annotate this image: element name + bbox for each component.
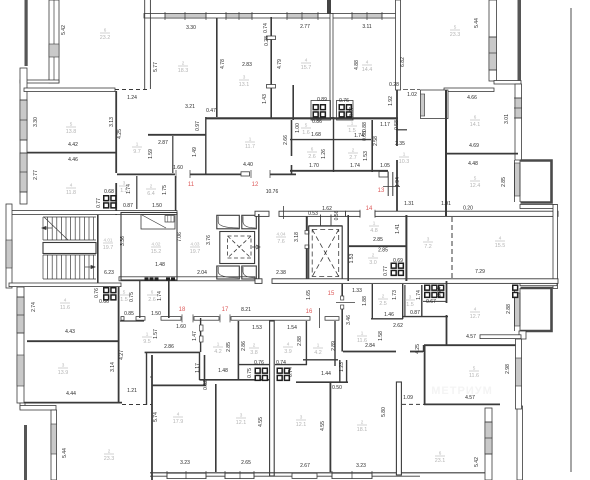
svg-text:1.05: 1.05 (380, 163, 390, 169)
svg-text:12.4: 12.4 (470, 183, 481, 189)
svg-text:0.68: 0.68 (362, 131, 368, 141)
balcony NE (thick) (521, 161, 552, 203)
svg-text:1: 1 (373, 221, 376, 226)
svg-text:2.86: 2.86 (241, 341, 247, 351)
svg-text:4: 4 (177, 412, 180, 417)
svg-text:1.74: 1.74 (416, 290, 422, 300)
loggia room4/14.4 (421, 90, 449, 119)
svg-text:14.1: 14.1 (470, 122, 481, 128)
svg-text:4.48: 4.48 (468, 161, 478, 167)
svg-text:3: 3 (240, 413, 243, 418)
west outer wall upper, windows (20, 68, 27, 204)
svg-text:3.14: 3.14 (110, 362, 116, 372)
svg-text:16: 16 (306, 309, 313, 315)
west outer wall stair block (6, 204, 12, 288)
svg-text:1.00: 1.00 (295, 123, 301, 133)
extra box pair right (438, 285, 444, 299)
meter boxes apt16 (277, 368, 291, 382)
svg-text:3.46: 3.46 (346, 315, 352, 325)
svg-text:2: 2 (182, 61, 185, 66)
room5/11.6 walls (424, 345, 426, 405)
svg-text:23.2: 23.2 (100, 35, 111, 41)
rooms 2/3.8|4/3.9 bottoms (239, 364, 271, 366)
lobby 4.04 east wall with door gap (306, 216, 308, 232)
bath fixtures C1 (313, 104, 327, 118)
svg-text:1.23: 1.23 (339, 362, 345, 372)
svg-text:3.0: 3.0 (369, 260, 377, 266)
niches above elevator 2 (309, 225, 342, 227)
svg-text:2.85: 2.85 (373, 237, 383, 243)
wall rooms6/5 right (446, 153, 518, 155)
svg-text:1.57: 1.57 (153, 329, 159, 339)
svg-text:0.56: 0.56 (334, 210, 340, 220)
svg-text:13: 13 (378, 188, 385, 194)
svg-text:4: 4 (305, 58, 308, 63)
bath block walls (290, 139, 371, 141)
stair top wall (7, 211, 177, 215)
svg-text:1.73: 1.73 (392, 290, 398, 300)
svg-text:4.43: 4.43 (65, 329, 75, 335)
svg-text:4: 4 (366, 60, 369, 65)
svg-text:6: 6 (151, 290, 154, 295)
balcony rail bottom-left (dark) (24, 425, 27, 480)
svg-text:12.1: 12.1 (236, 420, 247, 426)
svg-text:1.09: 1.09 (403, 395, 413, 401)
svg-text:4.55: 4.55 (320, 421, 326, 431)
svg-text:5.80: 5.80 (381, 407, 387, 417)
fire elevator 2 (solid box, dashed X) (309, 226, 343, 280)
east wall of left apt (115, 91, 117, 173)
svg-text:5.77: 5.77 (153, 62, 159, 72)
wall 1/4.2|1/11.6 apt16 (334, 321, 336, 366)
svg-text:0.58: 0.58 (394, 120, 400, 130)
wall x389 corridor east, door gap apt13 (387, 172, 389, 196)
svg-text:15.7: 15.7 (301, 65, 312, 71)
svg-text:1.92: 1.92 (388, 96, 394, 106)
meter boxes right corridor (391, 263, 405, 277)
dashed boundary room6/room1 (115, 89, 150, 91)
svg-text:0.76: 0.76 (94, 288, 100, 298)
svg-text:4.04: 4.04 (277, 232, 286, 237)
svg-text:0.47: 0.47 (206, 108, 216, 114)
svg-text:11.7: 11.7 (245, 144, 255, 150)
svg-text:1: 1 (361, 331, 364, 336)
svg-text:3: 3 (427, 237, 430, 242)
svg-text:0.53: 0.53 (308, 211, 318, 217)
svg-text:7.29: 7.29 (475, 269, 485, 275)
svg-text:2: 2 (372, 253, 375, 258)
wall x398 rooms2/6 (396, 382, 401, 475)
svg-text:0.75: 0.75 (247, 368, 253, 378)
svg-text:0.66: 0.66 (99, 299, 109, 305)
svg-text:3: 3 (243, 75, 246, 80)
svg-text:7.2: 7.2 (424, 244, 432, 250)
corridor bottom wall y212 right part (346, 211, 361, 216)
svg-text:0.28: 0.28 (389, 82, 399, 88)
svg-text:1.48: 1.48 (155, 262, 165, 268)
svg-text:1: 1 (317, 343, 320, 348)
svg-text:4.03: 4.03 (191, 242, 200, 247)
hall 18 west strip (120, 320, 144, 322)
lift lobby box (121, 213, 177, 281)
apt17 hall walls (200, 379, 271, 381)
svg-text:14: 14 (366, 206, 373, 212)
wall below balcony SE (519, 331, 526, 339)
svg-text:1.59: 1.59 (148, 149, 154, 159)
svg-text:4.01: 4.01 (104, 238, 113, 243)
svg-text:11.8: 11.8 (66, 190, 76, 196)
band wall y117 (206, 117, 398, 119)
svg-text:0.89: 0.89 (317, 97, 327, 103)
fire elevator 1 (solid box, inner dashed X) (220, 232, 255, 264)
wall x396 top (room5 west) (396, 0, 401, 90)
niche door ticks (200, 325, 204, 331)
svg-text:6.4: 6.4 (147, 191, 155, 197)
balcony SE (thick) (521, 288, 552, 331)
svg-text:1.47: 1.47 (192, 331, 198, 341)
dashed future partition (451, 217, 453, 281)
elevator shaft 2 (242, 215, 256, 229)
svg-text:2.35: 2.35 (395, 141, 405, 147)
meter boxes upper-left (103, 195, 117, 209)
svg-text:23.3: 23.3 (450, 32, 461, 38)
svg-text:0.88: 0.88 (362, 122, 368, 132)
bay walls (520, 205, 557, 209)
hall 1/4.8 + storage 2/3.0 walls (347, 215, 349, 281)
svg-text:2.77: 2.77 (300, 24, 310, 30)
svg-text:6.82: 6.82 (400, 57, 406, 67)
svg-text:13.8: 13.8 (66, 129, 77, 135)
svg-text:3.23: 3.23 (356, 463, 366, 469)
room5/23.3 window west wall (489, 0, 497, 81)
svg-text:9.7: 9.7 (133, 149, 141, 155)
svg-text:1.43: 1.43 (262, 94, 268, 104)
svg-text:4: 4 (474, 307, 477, 312)
svg-text:2.88: 2.88 (297, 336, 303, 346)
svg-text:2.38: 2.38 (276, 270, 286, 276)
svg-text:11: 11 (188, 182, 195, 188)
svg-text:1.26: 1.26 (321, 149, 327, 159)
svg-text:1.58: 1.58 (378, 331, 384, 341)
svg-text:2.85: 2.85 (226, 342, 232, 352)
svg-text:19.7: 19.7 (103, 245, 114, 251)
svg-text:1.62: 1.62 (322, 206, 332, 212)
svg-text:1.6: 1.6 (302, 130, 310, 136)
wall x397 room10.3 west upper (396, 90, 398, 146)
room6 east wall (double) (144, 0, 146, 89)
svg-text:0.28: 0.28 (264, 36, 270, 46)
svg-text:4.42: 4.42 (68, 142, 78, 148)
svg-text:0.74: 0.74 (288, 367, 294, 377)
svg-text:1.24: 1.24 (127, 95, 137, 101)
corridor bottom wall y318 (121, 317, 124, 321)
property boundary line (570, 8, 572, 472)
wall rooms2/3 (216, 18, 218, 117)
svg-text:0.87: 0.87 (410, 310, 420, 316)
svg-text:4.57: 4.57 (465, 395, 475, 401)
svg-text:6: 6 (104, 28, 107, 33)
svg-text:1.17: 1.17 (380, 122, 390, 128)
svg-text:3: 3 (409, 295, 412, 300)
svg-text:11.6: 11.6 (60, 305, 70, 311)
vestibule 15/16 east wall (341, 284, 343, 296)
svg-text:1.46: 1.46 (384, 312, 394, 318)
svg-text:3.67: 3.67 (349, 107, 355, 117)
svg-text:1.5: 1.5 (120, 297, 128, 303)
svg-text:1.49: 1.49 (192, 147, 198, 157)
svg-text:4.57: 4.57 (466, 334, 476, 340)
svg-text:4: 4 (64, 298, 67, 303)
svg-text:1.5: 1.5 (348, 128, 356, 134)
lobby west wall (175, 176, 177, 212)
west outer wall lower, windows (17, 287, 24, 403)
svg-text:5: 5 (305, 123, 308, 128)
room2/23.3 west window wall (51, 410, 57, 480)
staircase (42, 217, 96, 279)
svg-text:2: 2 (361, 420, 364, 425)
main west-side wall y88 (24, 88, 115, 92)
svg-text:11.6: 11.6 (469, 373, 479, 379)
svg-text:4.55: 4.55 (258, 417, 264, 427)
svg-text:1.53: 1.53 (349, 253, 355, 263)
vent chamber in lobby (141, 215, 175, 230)
svg-text:7.6: 7.6 (277, 239, 285, 245)
room area labels (100, 28, 111, 42)
svg-text:0.76: 0.76 (339, 98, 349, 104)
svg-text:0.74: 0.74 (263, 23, 269, 33)
svg-text:1.60: 1.60 (176, 324, 186, 330)
svg-text:6: 6 (311, 147, 314, 152)
closet partition (172, 136, 174, 173)
storages 2/2.5 3/1.5 walls (apt15) (371, 284, 373, 319)
svg-text:3.30: 3.30 (33, 117, 39, 127)
svg-text:5: 5 (123, 290, 126, 295)
svg-text:1.94: 1.94 (395, 177, 401, 187)
wall y377 x199-238 (150, 376, 152, 378)
svg-text:1.74: 1.74 (157, 291, 163, 301)
svg-text:2: 2 (352, 148, 355, 153)
svg-text:18.3: 18.3 (178, 68, 189, 74)
svg-text:1.31: 1.31 (404, 201, 414, 207)
lobby bottom wall (119, 277, 255, 281)
svg-text:1.33: 1.33 (352, 288, 362, 294)
svg-text:5.44: 5.44 (474, 18, 480, 28)
top-left balcony rail (dark) (25, 0, 28, 66)
svg-text:2: 2 (382, 294, 385, 299)
svg-text:1: 1 (217, 342, 220, 347)
svg-text:13.1: 13.1 (239, 82, 250, 88)
balcony bottom right (494, 81, 521, 85)
svg-text:9.5: 9.5 (143, 339, 151, 345)
svg-text:4.79: 4.79 (277, 59, 283, 69)
svg-text:0.85: 0.85 (124, 311, 134, 317)
balcony rail right top (dark) (518, 0, 522, 81)
svg-text:8.21: 8.21 (241, 307, 251, 313)
svg-text:0.67: 0.67 (426, 299, 436, 305)
svg-text:2.6: 2.6 (148, 297, 156, 303)
svg-text:2.74: 2.74 (31, 302, 37, 312)
svg-text:1.21: 1.21 (127, 388, 137, 394)
svg-text:4.44: 4.44 (66, 391, 76, 397)
svg-text:2.66: 2.66 (283, 135, 289, 145)
svg-text:0.74: 0.74 (437, 287, 443, 297)
svg-text:1.5: 1.5 (406, 302, 414, 308)
room4/17.9 west wall (151, 355, 153, 480)
svg-text:3.21: 3.21 (185, 104, 195, 110)
svg-text:4: 4 (287, 342, 290, 347)
lobby bottom wall y281 with door gap (255, 279, 262, 284)
svg-text:1.50: 1.50 (151, 311, 161, 317)
svg-text:2.87: 2.87 (158, 140, 168, 146)
svg-text:1.53: 1.53 (363, 151, 369, 161)
svg-text:1: 1 (403, 152, 406, 157)
svg-text:11.6: 11.6 (357, 338, 367, 344)
svg-text:4.40: 4.40 (243, 162, 253, 168)
boxes near bay (512, 285, 518, 299)
wall x446 (445, 90, 447, 216)
svg-text:12.7: 12.7 (470, 314, 481, 320)
svg-text:4.88: 4.88 (354, 60, 360, 70)
svg-text:1.54: 1.54 (287, 325, 297, 331)
svg-text:1.41: 1.41 (395, 224, 401, 234)
svg-text:15.5: 15.5 (495, 243, 506, 249)
svg-text:4.46: 4.46 (68, 157, 78, 163)
nub room 10.3 (396, 129, 407, 131)
outer top wall with windows (144, 14, 400, 19)
svg-text:2.62: 2.62 (393, 323, 403, 329)
svg-text:19.7: 19.7 (190, 249, 201, 255)
svg-text:0.52: 0.52 (203, 380, 209, 390)
svg-text:12.1: 12.1 (296, 422, 307, 428)
svg-text:18.1: 18.1 (357, 427, 368, 433)
svg-text:2: 2 (253, 343, 256, 348)
svg-text:3.30: 3.30 (186, 25, 196, 31)
apt16 niche walls (303, 359, 338, 361)
svg-text:5: 5 (473, 366, 476, 371)
svg-text:3.11: 3.11 (362, 24, 372, 30)
svg-text:4.69: 4.69 (469, 143, 479, 149)
svg-text:3.36: 3.36 (120, 236, 126, 246)
svg-text:4: 4 (70, 183, 73, 188)
svg-text:17: 17 (222, 307, 229, 313)
svg-text:2.5: 2.5 (379, 301, 387, 307)
svg-text:1: 1 (351, 121, 354, 126)
bottom outer wall with windows (150, 472, 492, 474)
room3/13.9 bottom wall (24, 402, 122, 404)
svg-text:3.9: 3.9 (284, 349, 292, 355)
svg-text:5.74: 5.74 (153, 412, 159, 422)
svg-text:1.02: 1.02 (407, 92, 417, 98)
bath fixtures C2 (339, 104, 353, 118)
svg-text:23.1: 23.1 (435, 458, 446, 464)
svg-text:1: 1 (249, 137, 252, 142)
svg-text:4.2: 4.2 (214, 349, 222, 355)
dashed y405 (122, 404, 152, 406)
svg-text:4.8: 4.8 (370, 228, 378, 234)
svg-text:2.58: 2.58 (373, 136, 379, 146)
east wall rooms4/3 left (118, 287, 120, 403)
svg-text:6.23: 6.23 (104, 270, 114, 276)
svg-text:15: 15 (328, 291, 335, 297)
svg-text:МЕТРИУМ: МЕТРИУМ (431, 385, 492, 397)
svg-text:0.50: 0.50 (332, 385, 342, 391)
svg-text:1.74: 1.74 (350, 163, 360, 169)
svg-text:14.4: 14.4 (362, 67, 373, 73)
svg-text:1.44: 1.44 (321, 371, 331, 377)
svg-text:0.75: 0.75 (129, 292, 135, 302)
svg-text:2: 2 (150, 184, 153, 189)
svg-text:0.77: 0.77 (383, 266, 389, 276)
svg-text:5.42: 5.42 (61, 25, 67, 35)
svg-text:2.77: 2.77 (33, 170, 39, 180)
partition room3|2/6.4 (136, 176, 138, 209)
balcony bottom wall (20, 80, 59, 83)
svg-text:4.25: 4.25 (415, 344, 421, 354)
svg-text:3.76: 3.76 (206, 235, 212, 245)
svg-text:3: 3 (300, 415, 303, 420)
svg-text:6: 6 (474, 115, 477, 120)
corner step bottom-left (20, 403, 25, 409)
wall rooms 4/15.7|4/14.4 (330, 14, 333, 118)
loggia right wall (517, 406, 523, 480)
svg-text:2.7: 2.7 (349, 155, 357, 161)
svg-text:1.48: 1.48 (218, 368, 228, 374)
svg-text:3.23: 3.23 (180, 460, 190, 466)
svg-text:0.69: 0.69 (393, 258, 403, 264)
wall x293 upper (292, 85, 294, 120)
svg-text:3.8: 3.8 (250, 350, 258, 356)
svg-text:1.60: 1.60 (173, 165, 183, 171)
svg-text:1.50: 1.50 (152, 203, 162, 209)
svg-text:4.2: 4.2 (314, 350, 322, 356)
svg-text:3.13: 3.13 (109, 117, 115, 127)
room6 west wall with window (49, 0, 59, 83)
main wall y88 right section (444, 88, 494, 92)
svg-text:5: 5 (454, 25, 457, 30)
svg-text:1.70: 1.70 (309, 163, 319, 169)
svg-text:17.9: 17.9 (173, 419, 184, 425)
room6/23.1 top wall (424, 403, 500, 405)
meter boxes apt13 (424, 285, 438, 299)
svg-text:12: 12 (252, 182, 259, 188)
svg-text:1.53: 1.53 (252, 325, 262, 331)
svg-text:2.83: 2.83 (242, 62, 252, 68)
svg-text:4.78: 4.78 (220, 59, 226, 69)
small shaft B (242, 266, 256, 279)
svg-text:1.91: 1.91 (441, 201, 451, 207)
svg-text:0.76: 0.76 (254, 360, 264, 366)
room 1/11.6 bottom wall y351.5 (343, 351, 396, 353)
svg-text:0.86: 0.86 (312, 119, 322, 125)
room 4/12.7 west wall (446, 281, 448, 303)
svg-text:2.85: 2.85 (378, 248, 388, 254)
svg-text:1.88: 1.88 (362, 296, 368, 306)
svg-text:5: 5 (474, 176, 477, 181)
svg-text:10.76: 10.76 (266, 189, 279, 195)
svg-text:2.85: 2.85 (501, 177, 507, 187)
party wall apt17/16 (270, 321, 275, 476)
svg-text:1.65: 1.65 (306, 290, 312, 300)
svg-text:2.6: 2.6 (308, 154, 316, 160)
svg-text:4.66: 4.66 (467, 95, 477, 101)
svg-text:1: 1 (146, 332, 149, 337)
left rooms under lobby (139, 281, 141, 318)
svg-text:3.01: 3.01 (504, 114, 510, 124)
svg-text:0.97: 0.97 (195, 121, 201, 131)
svg-text:2.67: 2.67 (300, 463, 310, 469)
svg-text:10.3: 10.3 (399, 159, 410, 165)
svg-text:0.68: 0.68 (104, 189, 114, 195)
